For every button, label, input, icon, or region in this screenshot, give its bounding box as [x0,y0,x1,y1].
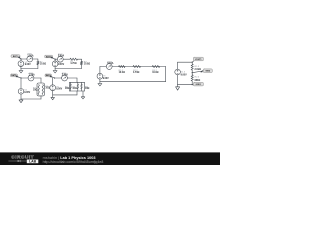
svg-text:R2.3: R2.3 [195,77,200,79]
svg-text:BAT3: BAT3 [11,74,16,77]
svg-text:0.90A: 0.90A [58,55,64,58]
svg-text:10.0Ω: 10.0Ω [84,64,90,66]
svg-text:9.00V: 9.00V [58,64,64,66]
svg-text:BAT2: BAT2 [46,55,51,58]
svg-text:LAB: LAB [29,160,37,164]
svg-text:VMID: VMID [205,71,210,73]
svg-text:9.00V: 9.00V [24,92,30,94]
svg-text:10Ω: 10Ω [65,88,70,90]
svg-text:10.0Ω: 10.0Ω [40,63,46,65]
svg-text:2.0kΩ: 2.0kΩ [195,69,201,71]
svg-text:R1.3: R1.3 [195,66,200,68]
svg-text:10.0Ω: 10.0Ω [119,72,125,74]
svg-text:V1.3: V1.3 [181,71,186,73]
svg-text:1.79A: 1.79A [29,74,35,77]
svg-text:9.00V: 9.00V [181,75,187,77]
svg-text:10Ω: 10Ω [85,88,90,90]
svg-text:2.68A: 2.68A [62,74,68,77]
svg-text:10Ω: 10Ω [33,89,38,91]
svg-text:1.80A: 1.80A [27,54,33,57]
svg-text:VOUT1: VOUT1 [195,59,201,61]
svg-text:9.00V: 9.00V [103,78,109,80]
svg-text:0.61A: 0.61A [107,62,113,65]
svg-text:http://circuitlab.com/c/59hd45: http://circuitlab.com/c/59hd45umfjq4e8 [43,160,104,164]
svg-text:10Ω: 10Ω [72,88,77,90]
svg-text:4.70Ω: 4.70Ω [133,71,139,74]
svg-text:10Ω: 10Ω [45,88,50,90]
svg-text:9.00V: 9.00V [56,88,62,90]
svg-text:680Ω: 680Ω [195,80,201,82]
svg-text:GND1: GND1 [196,84,201,86]
svg-text:BAT1: BAT1 [13,55,18,58]
svg-text:9.00V: 9.00V [25,64,31,66]
svg-text:10.0Ω: 10.0Ω [152,72,158,74]
svg-text:4.70Ω: 4.70Ω [70,62,76,65]
